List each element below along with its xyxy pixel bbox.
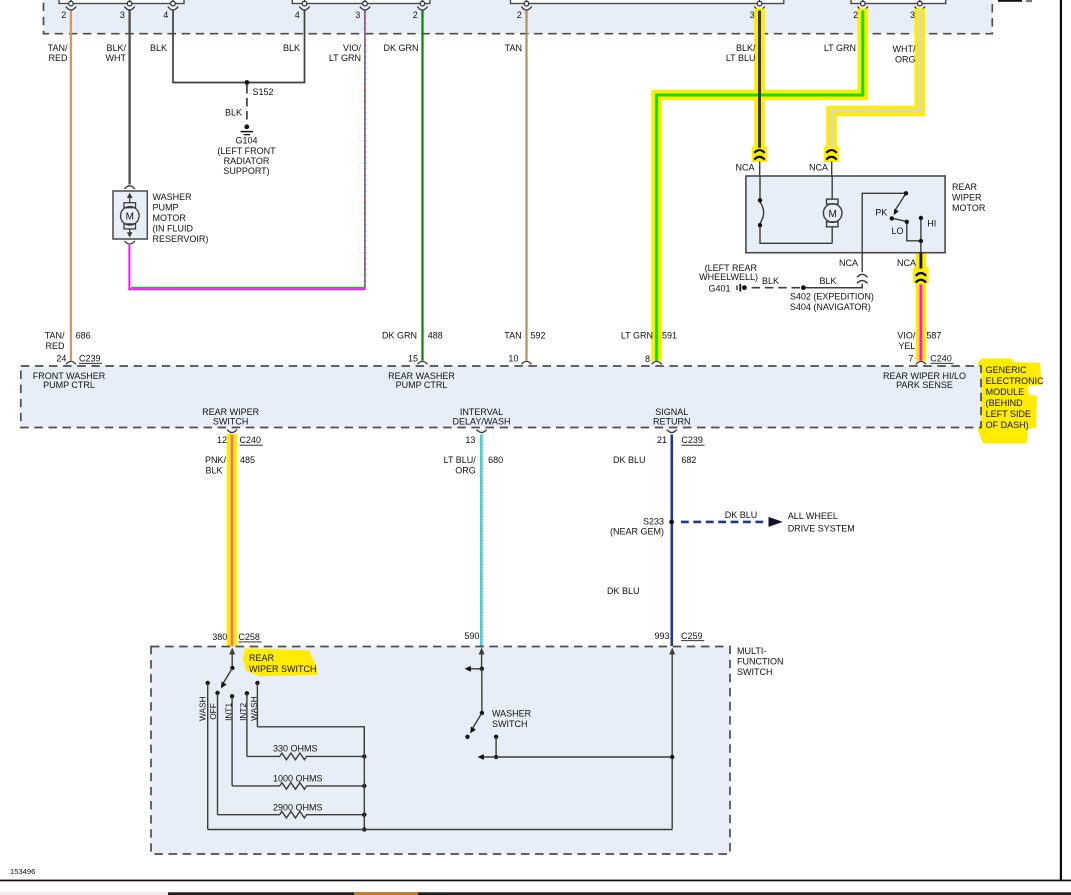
- wire LT GRN circuit 591 (pin 2 box4 to GEM pin 8): [657, 11, 863, 361]
- svg-text:VIO/: VIO/: [897, 330, 916, 340]
- washer switch arm: [480, 711, 484, 715]
- wire TAN circuit 592 (pin 2 box3 to GEM pin 10): [525, 11, 527, 361]
- splice S233: [669, 520, 674, 525]
- svg-text:8: 8: [645, 354, 650, 364]
- svg-text:WASHER: WASHER: [153, 192, 193, 202]
- svg-text:330 OHMS: 330 OHMS: [273, 744, 318, 754]
- pin 2 of connector box 4: [858, 0, 868, 10]
- inline connector NCA (WHT/ORG): [826, 150, 836, 160]
- connector cup below washer pump motor: [124, 241, 134, 244]
- svg-text:3: 3: [355, 10, 360, 20]
- svg-text:C239: C239: [79, 353, 101, 363]
- GEM pin 7 connector cup: [916, 361, 926, 364]
- svg-text:3: 3: [910, 10, 915, 20]
- svg-text:153496: 153496: [10, 867, 35, 876]
- highlighter swath over REAR WIPER SWITCH label: [243, 649, 318, 677]
- connector box 2 (pins 4,3,2): [292, 0, 430, 4]
- svg-text:NCA: NCA: [735, 163, 754, 173]
- svg-text:LT GRN: LT GRN: [824, 43, 856, 53]
- motor armature M: [823, 176, 842, 243]
- svg-text:NCA: NCA: [809, 163, 828, 173]
- svg-text:YEL: YEL: [898, 341, 915, 351]
- svg-text:DRIVE SYSTEM: DRIVE SYSTEM: [788, 523, 855, 533]
- module: top dashed connector strip (cut off at top): [44, 0, 993, 34]
- svg-text:PUMP CTRL: PUMP CTRL: [43, 380, 95, 390]
- GEM pin 24 connector cup: [66, 361, 76, 364]
- wire BLK dashed (S152 to G104): [246, 85, 248, 124]
- GEM pin 21 exit cup: [667, 430, 677, 433]
- svg-text:NCA: NCA: [897, 258, 916, 268]
- svg-text:2: 2: [413, 10, 418, 20]
- wire from NCA to motor box: [831, 162, 833, 177]
- svg-text:21: 21: [657, 435, 667, 445]
- svg-text:SWITCH: SWITCH: [213, 416, 249, 426]
- svg-text:SWITCH: SWITCH: [737, 667, 773, 677]
- contact position labels: [198, 696, 259, 721]
- rear wiper switch wiper arm: [230, 666, 234, 670]
- svg-text:NCA: NCA: [839, 258, 858, 268]
- connector box 3 (pins 2,3): [511, 0, 784, 4]
- GEM pin 8 connector cup: [652, 361, 662, 364]
- svg-text:LEFT SIDE: LEFT SIDE: [986, 409, 1031, 419]
- svg-text:LT GRN: LT GRN: [621, 331, 653, 341]
- wire BLK/LT BLU (pin 3 box3 to rear wiper motor): [758, 11, 761, 148]
- svg-text:S404 (NAVIGATOR): S404 (NAVIGATOR): [790, 302, 871, 312]
- svg-text:S233: S233: [643, 517, 664, 527]
- svg-text:2: 2: [853, 10, 858, 20]
- svg-text:1000 OHMS: 1000 OHMS: [273, 773, 323, 783]
- svg-text:993: 993: [654, 631, 669, 641]
- svg-text:FUNCTION: FUNCTION: [737, 657, 784, 667]
- svg-text:WASH: WASH: [198, 696, 208, 721]
- svg-text:DK BLU: DK BLU: [613, 455, 646, 465]
- pin 2 of connector box 1: [66, 0, 76, 10]
- splice S402/S404: [801, 285, 806, 290]
- wire VIO/LT GRN (pin 3 box2 to washer pump return): [128, 11, 365, 291]
- svg-text:C258: C258: [238, 632, 260, 642]
- svg-text:2: 2: [61, 10, 66, 20]
- svg-text:MULTI-: MULTI-: [737, 646, 766, 656]
- svg-text:3: 3: [750, 10, 755, 20]
- wire PNK/BLK circuit 485 (GEM pin 12 to multifunction switch): [231, 435, 234, 647]
- wash row wire: [257, 727, 364, 757]
- wire DK BLU circuit 682 (GEM pin 21 to multifunction switch): [670, 435, 673, 647]
- highlighter band over LT GRN wire: [657, 9, 863, 362]
- splice S152: [245, 80, 250, 85]
- svg-text:TAN/: TAN/: [48, 43, 68, 53]
- svg-text:BLK: BLK: [205, 465, 222, 475]
- svg-text:4: 4: [295, 10, 300, 20]
- svg-text:RETURN: RETURN: [653, 416, 691, 426]
- svg-text:C259: C259: [681, 631, 703, 641]
- svg-text:OF DASH): OF DASH): [986, 420, 1029, 430]
- svg-text:BLK: BLK: [819, 276, 836, 286]
- wire BLK/WHT (pin 3 box1 to washer pump): [128, 11, 130, 185]
- svg-text:12: 12: [217, 435, 227, 445]
- GEM internal labels bottom row: [202, 407, 690, 426]
- svg-text:BLK: BLK: [150, 43, 167, 53]
- wire from motor park switch to inline connector: [861, 253, 863, 273]
- wire WHT/ORG (pin 3 box4 to rear wiper motor): [832, 11, 920, 148]
- svg-text:13: 13: [465, 435, 475, 445]
- svg-text:PUMP: PUMP: [153, 203, 179, 213]
- svg-text:TAN/: TAN/: [45, 331, 65, 341]
- svg-text:24: 24: [56, 353, 66, 363]
- svg-text:LT GRN: LT GRN: [329, 53, 361, 63]
- highlighter swath over GENERIC ELECTRONIC MODULE label: [977, 359, 1042, 444]
- entry arrow pin 590: [479, 648, 485, 655]
- svg-text:DK BLU: DK BLU: [725, 510, 758, 520]
- svg-text:4: 4: [163, 10, 168, 20]
- svg-text:C240: C240: [930, 353, 952, 363]
- svg-text:591: 591: [662, 331, 677, 341]
- svg-text:PARK SENSE: PARK SENSE: [896, 380, 953, 390]
- svg-text:(IN FLUID: (IN FLUID: [153, 224, 194, 234]
- GEM pin 15 connector cup: [418, 361, 428, 364]
- inline connector NCA (park sense to ground): [804, 274, 868, 287]
- wire from NCA to motor box: [759, 162, 761, 177]
- svg-text:C239: C239: [681, 435, 703, 445]
- svg-text:485: 485: [240, 455, 255, 465]
- wire DK GRN circuit 488 (pin 2 box2 to GEM pin 15): [421, 11, 423, 361]
- rear wiper motor label: [952, 182, 986, 213]
- highlighter band over PNK/BLK wire: [227, 434, 238, 647]
- svg-text:TAN: TAN: [504, 331, 521, 341]
- pin 2 of connector box 3: [521, 0, 531, 10]
- svg-text:RED: RED: [45, 341, 65, 351]
- highlighter band over WHT/ORG wire: [832, 9, 920, 163]
- GEM module name label (highlighted): [986, 365, 1045, 430]
- wire BLK/LT BLU crossing over LT GRN: [758, 88, 761, 102]
- motor speed selector switch PK/LO/HI: [862, 193, 921, 252]
- svg-text:ALL WHEEL: ALL WHEEL: [788, 511, 838, 521]
- svg-text:M: M: [126, 212, 134, 223]
- svg-text:587: 587: [926, 330, 941, 340]
- highlighter band over BLK/LT BLU wire: [754, 9, 765, 162]
- entry arrow pin 993: [669, 648, 675, 655]
- svg-text:BLK: BLK: [225, 108, 242, 118]
- svg-text:G104: G104: [235, 136, 257, 146]
- svg-text:REAR: REAR: [952, 182, 978, 192]
- svg-text:BLK: BLK: [283, 43, 300, 53]
- svg-text:DK GRN: DK GRN: [383, 43, 418, 53]
- inline connector NCA (VIO/YEL): [916, 273, 926, 283]
- svg-text:DELAY/WASH: DELAY/WASH: [452, 416, 510, 426]
- svg-text:SWITCH: SWITCH: [492, 719, 528, 729]
- washer row wire with left arrow: [483, 756, 673, 758]
- svg-text:686: 686: [76, 331, 91, 341]
- pin 2 of connector box 2: [417, 0, 427, 10]
- svg-text:2: 2: [517, 10, 522, 20]
- svg-text:DK BLU: DK BLU: [607, 586, 640, 596]
- connector cup above washer pump motor: [124, 186, 134, 189]
- svg-text:488: 488: [428, 331, 443, 341]
- svg-text:REAR: REAR: [249, 653, 275, 663]
- svg-text:592: 592: [531, 331, 546, 341]
- multi-function switch box: [151, 647, 730, 855]
- GEM internal labels top row: [33, 371, 966, 390]
- svg-text:S152: S152: [253, 87, 274, 97]
- svg-text:LT BLU/: LT BLU/: [444, 455, 477, 465]
- GEM pin 10 connector cup: [522, 361, 532, 364]
- svg-text:WHEELWELL): WHEELWELL): [699, 272, 758, 282]
- svg-text:LO: LO: [892, 226, 904, 236]
- svg-text:BLK: BLK: [762, 276, 779, 286]
- svg-text:(LEFT FRONT: (LEFT FRONT: [217, 146, 276, 156]
- svg-text:RADIATOR: RADIATOR: [224, 156, 270, 166]
- wire BLK from pin 4 box2 to S152: [247, 11, 305, 83]
- svg-text:HI: HI: [927, 218, 936, 228]
- svg-text:BLK/: BLK/: [106, 43, 126, 53]
- svg-text:M: M: [829, 209, 837, 220]
- svg-text:TAN: TAN: [505, 43, 522, 53]
- svg-text:ORG: ORG: [455, 465, 476, 475]
- motor park contact (left, arc between dots): [760, 176, 832, 243]
- svg-text:ORG: ORG: [895, 54, 916, 64]
- svg-text:WASHER: WASHER: [492, 709, 532, 719]
- svg-text:10: 10: [508, 353, 518, 363]
- washer pump motor label: [153, 192, 209, 244]
- svg-text:ELECTRONIC: ELECTRONIC: [986, 376, 1045, 386]
- svg-text:7: 7: [908, 353, 913, 363]
- wire DK BLU dashed to all wheel drive system: [681, 521, 768, 524]
- wire LT BLU/ORG circuit 680 (GEM pin 13 to multifunction switch): [480, 435, 482, 647]
- resistor bus and bottom row: [363, 727, 365, 830]
- washer pump motor M1: [113, 191, 147, 239]
- svg-text:WHT: WHT: [106, 53, 127, 63]
- contact stub wires: [208, 683, 258, 830]
- page bottom border: [0, 880, 1071, 882]
- wire VIO/YEL circuit 587 (motor HI to GEM pin 7): [920, 285, 923, 361]
- svg-text:PNK/: PNK/: [205, 455, 227, 465]
- svg-text:MOTOR: MOTOR: [153, 213, 187, 223]
- pin 4 of connector box 1: [168, 0, 178, 10]
- svg-text:680: 680: [488, 455, 503, 465]
- inline connector NCA (BLK/LT BLU): [754, 150, 764, 160]
- svg-text:WHT/: WHT/: [893, 44, 916, 54]
- svg-text:MODULE: MODULE: [986, 387, 1025, 397]
- svg-text:GENERIC: GENERIC: [986, 365, 1028, 375]
- svg-text:15: 15: [408, 353, 418, 363]
- wire BLK dashed (S402 to G401): [748, 287, 800, 289]
- wire stub from motor HI to NCA: [920, 253, 923, 269]
- washer switch output contact: [494, 735, 498, 739]
- svg-text:LT BLU: LT BLU: [726, 53, 756, 63]
- ground G104: [217, 124, 276, 176]
- ground G401: [699, 263, 758, 293]
- rear wiper motor box: [746, 176, 945, 253]
- svg-text:682: 682: [681, 455, 696, 465]
- svg-text:BLK/: BLK/: [736, 43, 756, 53]
- svg-text:G401: G401: [708, 283, 730, 293]
- svg-text:OFF: OFF: [208, 703, 218, 720]
- wire TAN/RED circuit 686 (pin 2 box1 to GEM pin 24): [70, 11, 72, 361]
- GEM pin 13 exit cup: [477, 430, 487, 433]
- svg-text:PK: PK: [875, 207, 887, 217]
- GEM pin 12 exit cup: [227, 430, 237, 433]
- svg-text:MOTOR: MOTOR: [952, 203, 986, 213]
- bottom taskbar strip: [0, 892, 1071, 895]
- pin 3 of connector box 1: [124, 0, 134, 10]
- svg-text:380: 380: [212, 632, 227, 642]
- washer switch common node with left arrow: [480, 667, 484, 671]
- pin 3 of connector box 2: [360, 0, 370, 10]
- pin 3 of connector box 3: [754, 0, 764, 10]
- svg-text:PUMP CTRL: PUMP CTRL: [396, 380, 448, 390]
- highlighter band over VIO/YEL wire: [916, 253, 927, 361]
- page right border: [1060, 0, 1062, 881]
- svg-text:RESERVOIR): RESERVOIR): [153, 234, 209, 244]
- svg-text:S402 (EXPEDITION): S402 (EXPEDITION): [790, 292, 874, 302]
- pin 4 of connector box 2: [299, 0, 309, 10]
- svg-text:WIPER SWITCH: WIPER SWITCH: [249, 664, 317, 674]
- svg-text:3: 3: [120, 10, 125, 20]
- svg-text:C240: C240: [240, 435, 262, 445]
- connector box 1 (pins 2,3,4): [59, 0, 184, 4]
- svg-text:SUPPORT): SUPPORT): [223, 166, 269, 176]
- generic electronic module band: [21, 366, 981, 428]
- truncated text top right: [998, 0, 1022, 2]
- svg-text:2900 OHMS: 2900 OHMS: [273, 802, 323, 812]
- svg-text:(BEHIND: (BEHIND: [986, 398, 1024, 408]
- multi-function switch label: [737, 646, 784, 677]
- svg-text:DK GRN: DK GRN: [382, 331, 417, 341]
- svg-text:VIO/: VIO/: [343, 43, 362, 53]
- pin 3 of connector box 4: [915, 0, 925, 10]
- svg-text:590: 590: [464, 631, 479, 641]
- rear wiper switch contacts WASH,OFF,INT1,INT2,WASH: [206, 681, 210, 685]
- wire BLK from pin 4 box1 to S152: [173, 11, 247, 83]
- connector box 4 (pins 2,3): [851, 0, 946, 4]
- svg-text:(NEAR GEM): (NEAR GEM): [610, 527, 664, 537]
- svg-text:WIPER: WIPER: [952, 193, 982, 203]
- entry arrow pin 380: [229, 648, 235, 655]
- washer switch contact: [465, 735, 469, 739]
- svg-text:RED: RED: [48, 53, 68, 63]
